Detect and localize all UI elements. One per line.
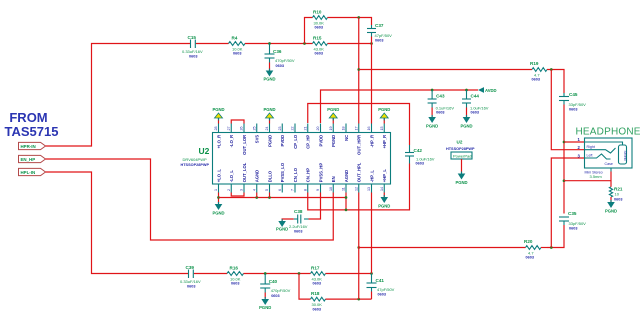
svg-text:16: 16 <box>367 127 371 131</box>
svg-text:CN_LO: CN_LO <box>293 167 298 182</box>
wire AGND line pins 1-4-5-11 <box>219 198 347 210</box>
capacitor C37 <box>367 23 392 43</box>
wire C40 to PGND <box>264 293 266 299</box>
wire R20 out <box>541 247 547 249</box>
svg-text:HEADPHONE: HEADPHONE <box>576 127 640 138</box>
net flag HPR-IN <box>19 142 46 149</box>
svg-text:0603: 0603 <box>276 64 284 68</box>
svg-text:PGND: PGND <box>460 124 472 129</box>
wire C39 to R16 <box>194 273 227 275</box>
svg-text:OUT_LOL: OUT_LOL <box>242 162 247 182</box>
svg-text:4: 4 <box>252 189 256 191</box>
wire EN_HP to pin 10 <box>46 159 334 240</box>
svg-text:PVDD: PVDD <box>280 135 285 147</box>
U2 PowerPad <box>446 140 475 160</box>
svg-text:0603: 0603 <box>189 55 197 59</box>
wire HPL-IN to C39 <box>46 172 189 274</box>
svg-text:Shield: Shield <box>623 151 627 161</box>
svg-text:OUT_LOR: OUT_LOR <box>242 135 247 155</box>
junction pin 5 <box>268 196 271 199</box>
capacitor C15 <box>182 35 203 59</box>
svg-text:18: 18 <box>342 127 346 131</box>
junction jack pin 1 <box>563 141 566 144</box>
svg-text:19: 19 <box>329 127 333 131</box>
ground PGND at U2 pin 24 <box>263 107 275 121</box>
svg-text:10: 10 <box>615 192 620 197</box>
svg-text:SVS: SVS <box>255 135 260 144</box>
wire R20 out to jack pin 3 <box>551 158 584 248</box>
svg-text:C42: C42 <box>414 148 423 153</box>
ground PGND at R21 <box>605 200 617 214</box>
capacitor C40 <box>260 274 290 299</box>
svg-text:47pF/50V: 47pF/50V <box>375 33 393 38</box>
wire jumper pins 27-26 <box>231 120 244 124</box>
wire pin 4 to AGND line <box>256 193 258 198</box>
op-amp U2 DRV604PWP body <box>181 133 391 185</box>
svg-text:0603: 0603 <box>315 52 323 56</box>
svg-text:0603: 0603 <box>378 293 386 297</box>
svg-text:0603: 0603 <box>315 26 323 30</box>
svg-text:Right: Right <box>587 145 595 149</box>
svg-text:PVSS_HP: PVSS_HP <box>318 163 323 183</box>
svg-text:0603: 0603 <box>436 111 444 115</box>
junction C44 <box>465 89 468 92</box>
svg-text:R18: R18 <box>311 291 320 296</box>
wire C15 to R4 <box>196 43 229 45</box>
svg-text:0603: 0603 <box>233 52 241 56</box>
wire PowerPad to PGND <box>461 159 463 173</box>
ground PGND at C36 <box>263 69 275 82</box>
wire PVDD pin20 to AVDD rail <box>321 90 479 123</box>
svg-text:PGND: PGND <box>426 124 438 129</box>
ground PGND at U2 pin 19 <box>327 107 339 121</box>
svg-text:EN: EN <box>331 176 336 182</box>
wire R21 to PGND <box>610 197 612 202</box>
wire pin 19 to PGND <box>332 118 334 124</box>
svg-text:0603: 0603 <box>532 78 540 82</box>
svg-text:6: 6 <box>278 189 282 191</box>
svg-text:OUT_HPR: OUT_HPR <box>357 135 362 155</box>
svg-text:1: 1 <box>214 189 218 191</box>
svg-text:EN_HP: EN_HP <box>21 157 36 162</box>
wire jack case down <box>610 172 612 183</box>
svg-text:TAS5715: TAS5715 <box>5 124 59 139</box>
svg-text:C38: C38 <box>294 209 303 214</box>
wire C35 bottom to R20 line <box>547 225 564 248</box>
U2 bottom pin names <box>216 162 387 182</box>
wire R15 to node C <box>328 43 372 45</box>
svg-text:CP_LO: CP_LO <box>293 134 298 149</box>
svg-text:PGND: PGND <box>212 211 224 216</box>
wire node C vertical to pin 16 <box>371 44 373 124</box>
power AVDD <box>478 87 497 93</box>
svg-text:0603: 0603 <box>187 285 195 289</box>
svg-text:3.5mm: 3.5mm <box>590 174 603 179</box>
capacitor C35 <box>559 211 586 231</box>
wire C38 to PGND <box>282 219 294 221</box>
svg-text:AGND: AGND <box>255 170 260 182</box>
svg-text:23: 23 <box>278 127 282 131</box>
junction node A / R10 branch <box>303 42 306 45</box>
ground PGND at U2 pin 28 <box>212 107 224 121</box>
svg-text:12: 12 <box>354 187 358 191</box>
capacitor C45 <box>559 92 586 112</box>
wire C43 to PGND <box>431 108 433 118</box>
svg-text:3: 3 <box>240 189 244 191</box>
svg-text:PGND: PGND <box>331 135 336 147</box>
svg-text:OUT_HPL: OUT_HPL <box>357 162 362 182</box>
ground PGND at U2 pin 15 <box>378 107 390 121</box>
svg-text:C45: C45 <box>569 92 578 97</box>
svg-text:C35: C35 <box>568 211 577 216</box>
svg-text:24: 24 <box>265 127 269 131</box>
svg-text:8: 8 <box>303 189 307 191</box>
svg-text:PGND: PGND <box>378 204 390 209</box>
junction case tie <box>563 179 566 182</box>
svg-text:17: 17 <box>354 127 358 131</box>
svg-text:13: 13 <box>367 187 371 191</box>
wire C44 to PGND <box>466 108 468 118</box>
resistor R17 <box>311 266 326 286</box>
svg-text:PGND: PGND <box>378 107 390 112</box>
svg-text:11: 11 <box>342 187 346 191</box>
ground PGND at C43 <box>426 115 438 129</box>
svg-text:R15: R15 <box>313 36 322 41</box>
svg-text:CN_HP: CN_HP <box>306 168 311 182</box>
capacitor C43 <box>428 90 455 115</box>
U2 top pin numbers 28-15 <box>214 127 384 131</box>
svg-text:-LO_R: -LO_R <box>229 135 234 148</box>
wire pin 28 to PGND <box>218 118 220 124</box>
svg-text:DLLO: DLLO <box>267 170 272 182</box>
svg-text:R10: R10 <box>313 10 322 15</box>
svg-text:-HP_R: -HP_R <box>369 135 374 148</box>
resistor R10 <box>313 10 328 30</box>
junction pin 4 <box>255 196 258 199</box>
svg-text:20: 20 <box>316 127 320 131</box>
svg-text:26: 26 <box>240 127 244 131</box>
svg-text:0603: 0603 <box>471 111 479 115</box>
wire pin1 to PGND <box>218 193 220 204</box>
svg-text:0.1uF/16V: 0.1uF/16V <box>436 105 455 110</box>
svg-text:PowerPad: PowerPad <box>453 154 471 159</box>
svg-text:HTSSOP28PWP: HTSSOP28PWP <box>446 147 475 151</box>
junction R19 out / jack pin2 branch <box>550 68 553 71</box>
svg-text:+HP_R: +HP_R <box>382 135 387 149</box>
wire R16 to node A' <box>244 273 311 275</box>
wire R17 to node C' <box>326 273 372 275</box>
svg-text:FROM: FROM <box>9 110 47 125</box>
svg-text:0.33uF/16V: 0.33uF/16V <box>182 49 203 54</box>
svg-text:HPR-IN: HPR-IN <box>21 144 36 149</box>
svg-text:0603: 0603 <box>614 198 622 202</box>
wire R10 to C37 top <box>328 18 372 26</box>
resistor R21 <box>609 187 622 202</box>
svg-text:C15: C15 <box>188 35 197 40</box>
wire pin 5 to AGND line <box>269 193 271 198</box>
wire HPR-IN to C15 <box>46 44 191 147</box>
junction node C' / C41 / pin13 <box>370 272 373 275</box>
net flag EN_HP <box>19 155 46 162</box>
svg-text:R4: R4 <box>232 36 238 41</box>
svg-text:C40: C40 <box>269 279 278 284</box>
svg-text:R16: R16 <box>230 266 239 271</box>
junction pin 11 <box>345 196 348 199</box>
wire pin14 to PGND <box>383 193 385 198</box>
junction OUT_HPR / R19 <box>357 68 360 71</box>
svg-text:27: 27 <box>227 127 231 131</box>
svg-text:0.33uF/16V: 0.33uF/16V <box>180 279 201 284</box>
svg-text:5: 5 <box>265 189 269 191</box>
svg-text:R19: R19 <box>530 61 539 66</box>
svg-text:AGND: AGND <box>344 170 349 182</box>
title FROM TAS5715 <box>5 110 59 139</box>
svg-text:47pF/50V: 47pF/50V <box>377 287 395 292</box>
svg-text:14: 14 <box>380 187 384 191</box>
capacitor C41 <box>367 274 395 297</box>
svg-text:0603: 0603 <box>569 108 577 112</box>
svg-text:+LO_R: +LO_R <box>216 135 221 149</box>
svg-text:+LO_L: +LO_L <box>216 169 221 183</box>
ground PGND at C40 <box>259 297 271 310</box>
headphone jack J1 <box>578 137 633 179</box>
svg-text:0603: 0603 <box>271 294 279 298</box>
svg-text:33pF/50V: 33pF/50V <box>569 102 587 107</box>
svg-text:0603: 0603 <box>375 39 383 43</box>
svg-text:U2: U2 <box>199 146 210 156</box>
svg-text:PGND: PGND <box>276 227 288 232</box>
wire pin 11 to AGND line <box>345 193 347 198</box>
wire to jack pin 1 <box>564 141 585 143</box>
svg-text:-LO_L: -LO_L <box>229 170 234 183</box>
wire R4 to node A <box>245 43 313 45</box>
resistor R20 <box>524 239 541 260</box>
ground PGND at PowerPad <box>455 172 467 186</box>
wire R19 out to jack pin 2 <box>551 70 584 150</box>
ground PGND at C38 <box>276 219 288 232</box>
wire C37 to node C <box>371 37 373 44</box>
wire C45 to pin1 net / C35 top <box>563 105 565 214</box>
svg-text:470pF/50V: 470pF/50V <box>271 288 291 293</box>
svg-text:DRV604PWP: DRV604PWP <box>183 157 207 162</box>
junction node A / C36 <box>268 42 271 45</box>
svg-text:HTSSOP28PWP: HTSSOP28PWP <box>181 163 210 167</box>
capacitor C38 <box>289 209 309 234</box>
svg-text:HPL-IN: HPL-IN <box>21 170 36 175</box>
wire node A up to R10 <box>305 18 313 44</box>
junction node C / C37 bottom / pin16 <box>370 42 373 45</box>
svg-text:28: 28 <box>214 127 218 131</box>
svg-text:AVDD: AVDD <box>485 88 497 93</box>
svg-text:0603: 0603 <box>416 161 424 165</box>
ground PGND at U2 pin 14 <box>378 195 390 209</box>
svg-text:1.0uF/16V: 1.0uF/16V <box>470 105 489 110</box>
resistor R4 <box>229 36 246 56</box>
svg-text:NC: NC <box>344 135 349 141</box>
svg-text:15: 15 <box>380 127 384 131</box>
svg-text:C39: C39 <box>186 265 195 270</box>
wire OUT_HPL vertical pin 12 <box>358 193 360 300</box>
capacitor C39 <box>180 265 201 289</box>
svg-text:R17: R17 <box>311 266 320 271</box>
capacitor C36 <box>265 44 295 69</box>
wire OUT_HPL to R20 <box>359 247 526 249</box>
resistor R18 <box>311 291 326 311</box>
svg-text:10: 10 <box>329 187 333 191</box>
capacitor C42 <box>405 145 435 165</box>
wire case to R21 <box>610 183 612 187</box>
svg-text:470pF/50V: 470pF/50V <box>275 58 295 63</box>
wire pin 24 to PGND <box>269 118 271 124</box>
resistor R15 <box>313 36 328 56</box>
svg-text:0603: 0603 <box>569 227 577 231</box>
wire jumper pins 2-3 <box>231 193 244 197</box>
ground PGND at U2 pin 1 <box>212 202 224 216</box>
svg-text:0603: 0603 <box>294 230 302 234</box>
ground PGND at C44 <box>460 115 472 129</box>
svg-text:22: 22 <box>291 127 295 131</box>
wire case line <box>564 180 611 182</box>
svg-text:PGND: PGND <box>263 107 275 112</box>
U2 bottom pin stubs <box>219 184 385 193</box>
svg-text:Case: Case <box>605 162 613 166</box>
resistor R19 <box>530 61 547 82</box>
svg-text:CP_HP: CP_HP <box>306 135 311 149</box>
wire C41 bottom to R18 line <box>371 292 373 300</box>
svg-text:Left: Left <box>587 154 593 158</box>
wire R18 to node B' <box>326 298 372 300</box>
svg-text:C37: C37 <box>375 23 384 28</box>
svg-text:2: 2 <box>227 189 231 191</box>
svg-text:PGND: PGND <box>455 180 467 185</box>
svg-text:33pF/50V: 33pF/50V <box>569 221 587 226</box>
resistor R16 <box>227 266 244 286</box>
junction R20 out / jack pin3 branch <box>550 246 553 249</box>
junction node A' / C40 <box>264 272 267 275</box>
wire C42 bottom to pin8 CN_HP <box>308 164 410 210</box>
wire C36 to PGND <box>269 63 271 71</box>
svg-text:PVDD: PVDD <box>318 135 323 147</box>
svg-text:0603: 0603 <box>313 307 321 311</box>
wire OUT_HPR vertical to pin 17 <box>358 18 360 124</box>
svg-text:21: 21 <box>303 127 307 131</box>
svg-text:2.2uF/16V: 2.2uF/16V <box>289 224 308 229</box>
net flag HPL-IN <box>19 168 46 175</box>
wire pin 15 to PGND <box>383 118 385 124</box>
svg-text:9: 9 <box>316 189 320 191</box>
wire node A' down to R18 <box>299 274 311 300</box>
junction OUT_HPR / R10-C37 node <box>357 16 360 19</box>
junction OUT_HPL / R18 <box>357 298 360 301</box>
svg-text:+HP_L: +HP_L <box>382 169 387 183</box>
svg-text:C44: C44 <box>471 94 480 99</box>
svg-text:PGND: PGND <box>259 305 271 310</box>
U2 bottom pin numbers 1-14 <box>214 187 384 191</box>
junction OUT_HPL / R20 <box>357 246 360 249</box>
svg-text:0603: 0603 <box>231 282 239 286</box>
wire R19 to C45 / corner <box>547 70 564 94</box>
U2 top pin stubs <box>219 124 385 133</box>
svg-text:PGND: PGND <box>267 135 272 147</box>
svg-text:7: 7 <box>291 189 295 191</box>
svg-text:C41: C41 <box>376 278 385 283</box>
svg-text:PGND: PGND <box>327 107 339 112</box>
U2 top pin names <box>216 134 387 155</box>
wire pin 9 to C38 <box>309 193 321 220</box>
capacitor C44 <box>462 90 489 115</box>
svg-text:PGND: PGND <box>212 107 224 112</box>
junction pin1 / AGND line <box>217 196 220 199</box>
junction C43 <box>431 89 434 92</box>
svg-text:R20: R20 <box>524 239 533 244</box>
svg-text:PGND: PGND <box>605 209 617 214</box>
junction AGND / CN line <box>345 209 348 212</box>
svg-text:PGND: PGND <box>263 77 275 82</box>
svg-text:25: 25 <box>252 127 256 131</box>
svg-text:C36: C36 <box>273 49 282 54</box>
junction node A' / R18 branch <box>298 272 301 275</box>
svg-text:PVSS_LO: PVSS_LO <box>280 162 285 182</box>
svg-text:C43: C43 <box>436 94 445 99</box>
wire pin21 CP_HP to C42 top <box>308 104 410 146</box>
svg-text:0603: 0603 <box>313 282 321 286</box>
svg-text:-HP_L: -HP_L <box>369 170 374 183</box>
svg-text:U2: U2 <box>457 140 463 145</box>
svg-text:0603: 0603 <box>526 256 534 260</box>
wire OUT_HPR to R19 <box>359 69 532 71</box>
wire -HP_L vertical pin 13 <box>371 193 373 274</box>
